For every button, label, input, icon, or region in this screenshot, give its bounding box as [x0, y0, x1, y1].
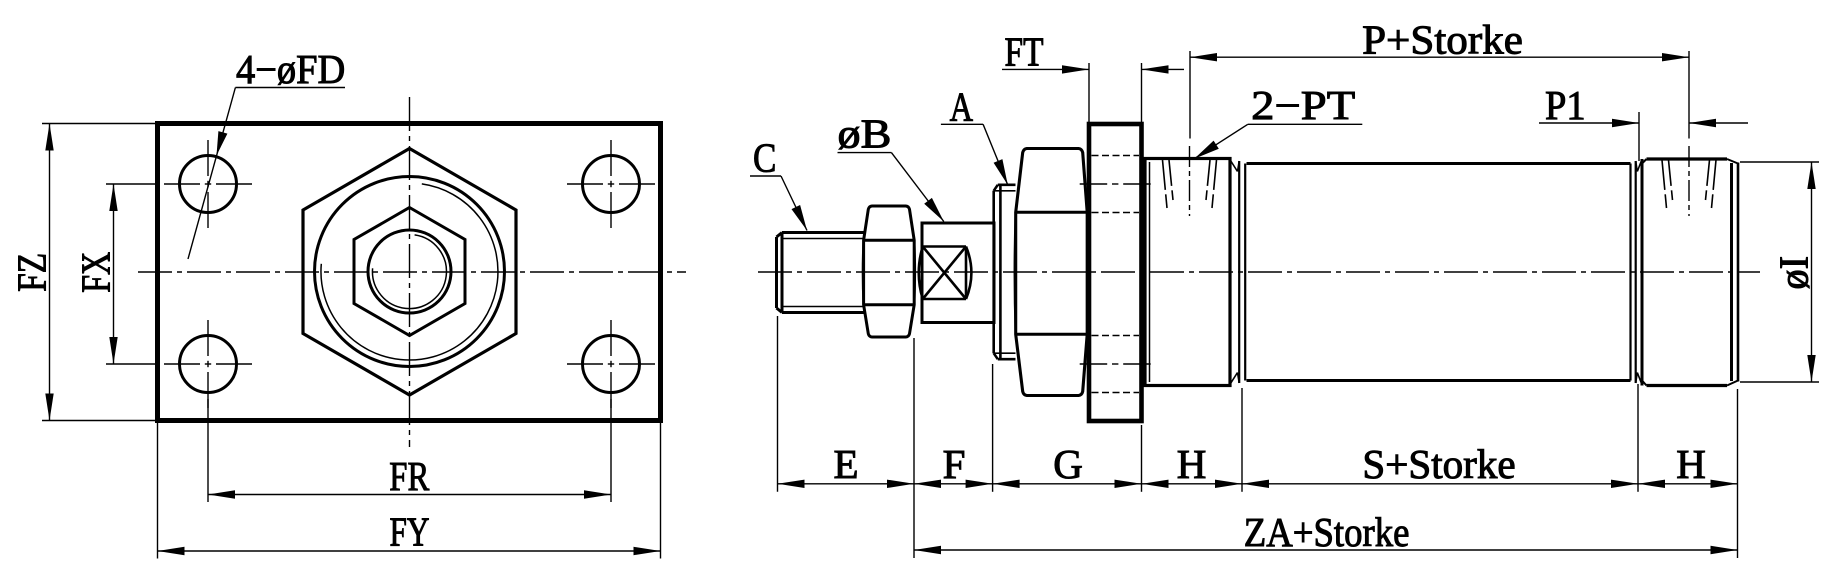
- rod thread lines: [783, 238, 865, 240]
- dim P+Storke extension lines: [1189, 51, 1191, 139]
- label 4-oFD arrow: [217, 131, 228, 155]
- label C underline: [750, 175, 781, 177]
- head chamfer line: [1149, 162, 1151, 382]
- bolt hole top-right centerlines: [567, 183, 603, 185]
- rod flats square: [923, 245, 966, 248]
- dim FT extension lines: [1088, 63, 1090, 122]
- dim P1 line: [1539, 122, 1639, 124]
- bolt hole top-right: [583, 156, 640, 213]
- label A arrow: [994, 159, 1008, 185]
- dim FY line: [158, 550, 661, 552]
- dim P+Storke arrows: [1190, 53, 1217, 61]
- tube end line: [1629, 164, 1631, 381]
- label A leader: [983, 124, 1008, 185]
- bolt hole bottom-right: [583, 336, 640, 393]
- label 2-PT arrow: [1194, 141, 1219, 159]
- port 1 (2-PT) thread: [1189, 146, 1191, 216]
- dim FX line: [113, 184, 115, 364]
- head mounting nut outline: [1016, 149, 1087, 396]
- bolt hole top-left: [180, 156, 237, 213]
- cylinder tube: [1247, 162, 1631, 165]
- svg-text:FR: FR: [389, 453, 430, 499]
- dim ZA line: [914, 549, 1738, 551]
- label A underline: [941, 123, 983, 125]
- rod hole circle: [368, 230, 451, 313]
- bolt hole bottom-right centerlines: [567, 363, 603, 365]
- dim FR extension lines: [207, 399, 209, 502]
- dim P1 extension line: [1638, 112, 1640, 161]
- dim FZ arrows: [45, 124, 53, 151]
- svg-text:FZ: FZ: [9, 253, 55, 292]
- dim P1 arrows: [1612, 119, 1639, 127]
- flange plate side view: [1089, 124, 1142, 421]
- rod flats section outline: [922, 223, 994, 323]
- dim oI line: [1811, 162, 1813, 382]
- vertical centerline left view: [409, 97, 411, 447]
- svg-text:H: H: [1676, 441, 1706, 487]
- cylinder head outline: [1145, 159, 1230, 386]
- rod flats left arc: [919, 247, 923, 300]
- bolt hole bottom-left: [180, 336, 237, 393]
- svg-text:P1: P1: [1545, 82, 1586, 128]
- rear cap outline: [1641, 159, 1644, 386]
- dim FX extension lines: [106, 183, 158, 185]
- horizontal centerline side view: [758, 271, 1760, 273]
- flange hidden hole lines: [1092, 155, 1140, 157]
- label 4-oFD underline: [235, 87, 345, 89]
- rod nut outline: [864, 206, 915, 337]
- mounting boss plate A: [992, 191, 995, 353]
- piston rod thread end: [775, 237, 778, 308]
- label 2-PT underline: [1248, 123, 1363, 125]
- label oB arrow: [924, 198, 944, 222]
- label C arrow: [792, 205, 808, 231]
- nut chamfer circle: [315, 177, 505, 367]
- bolt hole top-left centerlines: [164, 183, 200, 185]
- dim FX arrows: [109, 184, 117, 211]
- dim ZA arrows: [914, 546, 941, 554]
- horizontal centerline left view: [138, 271, 686, 273]
- rod thread thin arc: [372, 235, 446, 309]
- label 2-PT leader: [1194, 124, 1248, 158]
- flange hole centerlines: [1080, 183, 1108, 185]
- svg-text:øB: øB: [838, 111, 892, 157]
- rod flats right arc: [966, 247, 971, 300]
- dim FY arrows: [158, 547, 185, 555]
- dim FR arrows: [208, 490, 235, 498]
- bottom dim line: [778, 483, 1738, 485]
- bottom dim extension lines: [777, 316, 779, 492]
- hex nut outer hexagon: [303, 149, 516, 396]
- svg-text:ZA+Storke: ZA+Storke: [1244, 509, 1410, 555]
- svg-text:E: E: [833, 441, 858, 487]
- svg-text:FX: FX: [73, 252, 119, 293]
- label oB underline: [838, 152, 892, 154]
- dim oI extension lines: [1740, 161, 1819, 163]
- label oB leader: [891, 153, 943, 222]
- svg-text:S+Storke: S+Storke: [1362, 441, 1515, 487]
- svg-text:G: G: [1053, 441, 1083, 487]
- flange plate front view outline: [158, 124, 661, 421]
- dim FR line: [208, 494, 611, 496]
- label 4-oFD leader: [188, 88, 235, 260]
- dim oI arrows: [1807, 162, 1815, 189]
- port 2 thread: [1688, 146, 1690, 216]
- svg-text:F: F: [943, 441, 966, 487]
- rod flats X diagonals: [923, 247, 966, 300]
- inner hexagon (rod nut): [354, 208, 465, 336]
- head-tube groove: [1238, 161, 1240, 383]
- bolt hole bottom-left centerlines: [164, 363, 200, 365]
- dim FZ line: [49, 124, 51, 421]
- svg-text:FY: FY: [390, 509, 430, 555]
- dim FT line: [1002, 68, 1089, 70]
- dim FZ extension lines: [42, 123, 158, 125]
- dim FT arrows: [1062, 65, 1089, 73]
- dim FY extension lines: [157, 423, 159, 559]
- svg-text:2−PT: 2−PT: [1251, 82, 1355, 128]
- svg-text:P+Storke: P+Storke: [1362, 17, 1523, 63]
- svg-text:H: H: [1177, 441, 1207, 487]
- dim P+Storke line: [1190, 56, 1689, 58]
- svg-text:C: C: [753, 135, 776, 181]
- bottom dim arrows: [778, 480, 805, 488]
- svg-text:4−øFD: 4−øFD: [236, 46, 345, 92]
- svg-text:A: A: [950, 84, 974, 130]
- svg-text:FT: FT: [1005, 29, 1044, 75]
- outer thread thin arc: [321, 184, 498, 360]
- label C leader: [781, 176, 807, 231]
- svg-text:øI: øI: [1771, 256, 1817, 290]
